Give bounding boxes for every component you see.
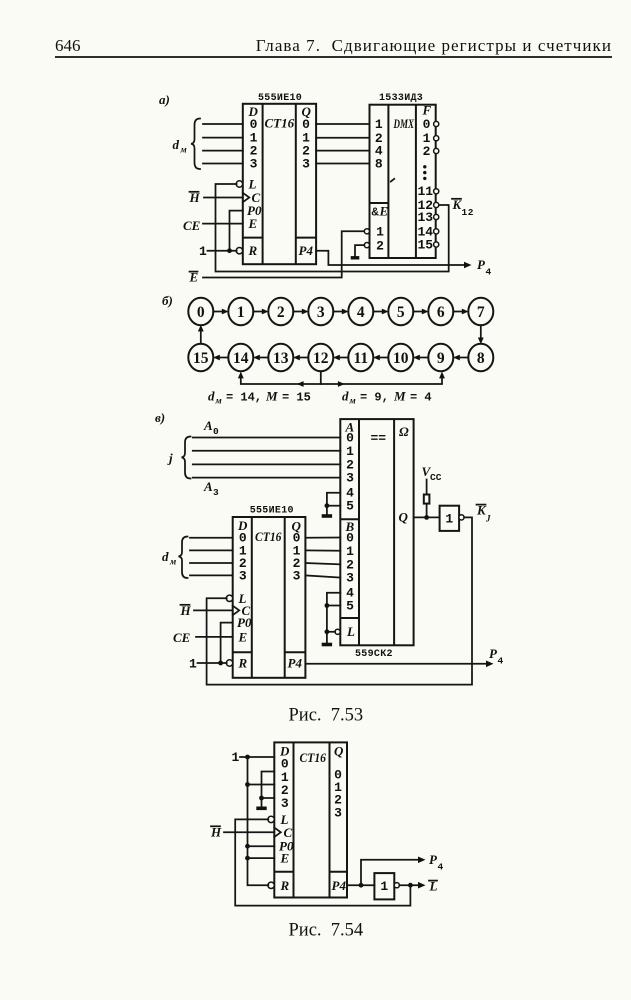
wire KJ feedback to L (207, 517, 472, 684)
svg-text:d: d (208, 389, 215, 404)
svg-text:L: L (346, 624, 355, 639)
counter U6 R bubble (268, 882, 274, 888)
svg-text:j: j (167, 451, 173, 466)
transition arrows bottom row (8 to 15) (213, 355, 468, 361)
brace for dm (179, 537, 188, 579)
transition arrows top row (213, 309, 468, 315)
svg-text:3: 3 (317, 304, 325, 321)
svg-text:5: 5 (397, 304, 405, 321)
svg-text:1: 1 (189, 657, 197, 672)
wire H to C (194, 609, 233, 611)
header rule (55, 56, 612, 58)
counter U1 body (243, 104, 316, 264)
junction P4 (359, 883, 364, 888)
wires Q0-Q3 to B0-B3 (305, 537, 340, 539)
svg-text:==: == (371, 431, 387, 446)
wire D1 to ground rail (262, 772, 275, 807)
counter U1 R inversion bubble (236, 248, 242, 254)
svg-text:3: 3 (281, 796, 289, 811)
state nodes 15-8 (188, 344, 493, 371)
inverter U7 body (374, 873, 394, 899)
junction A5 (325, 503, 330, 508)
svg-text:CE: CE (183, 218, 201, 233)
svg-text:d: d (173, 137, 180, 152)
counter U6 body (274, 742, 347, 897)
svg-text:0: 0 (213, 426, 219, 437)
svg-text:М: М (393, 389, 406, 404)
Vcc lead (426, 480, 428, 495)
svg-text:= 4: = 4 (410, 391, 432, 405)
svg-text:м: м (215, 396, 222, 406)
svg-text:d: d (342, 389, 349, 404)
svg-text:1: 1 (445, 511, 453, 526)
wire CE to E (203, 223, 243, 225)
svg-text:CT16: CT16 (300, 750, 327, 765)
comparator U3 L bubble (335, 629, 340, 634)
arrow 7 to 8 (480, 325, 482, 339)
svg-text:555ИЕ10: 555ИЕ10 (258, 93, 302, 104)
svg-text:3: 3 (346, 471, 354, 486)
junction D3 (259, 796, 264, 801)
svg-text:Глава 7. Сдвигающие регистры: Глава 7. Сдвигающие регистры и счетчики (256, 36, 612, 55)
svg-text:= 14,: = 14, (226, 391, 262, 405)
direction arrowhead on 12-9 line (338, 381, 345, 387)
svg-text:2: 2 (423, 144, 431, 159)
jump line 12 to 9 (321, 377, 442, 385)
svg-text:М: М (265, 389, 278, 404)
svg-text:5: 5 (346, 499, 354, 514)
wire H to C (204, 197, 243, 199)
wire 1 to R (208, 250, 237, 252)
wire P4 branch with arrow (361, 860, 418, 885)
svg-text:14: 14 (233, 350, 249, 367)
demux U2 output bubbles (434, 121, 439, 126)
svg-text:1: 1 (232, 750, 240, 765)
inverter U5 output bubble (459, 515, 464, 520)
counter U6 R-cell separator (274, 871, 293, 873)
svg-text:1: 1 (375, 117, 383, 132)
svg-text:CC: CC (430, 472, 442, 483)
svg-text:4: 4 (498, 656, 504, 667)
svg-text:CE: CE (173, 630, 191, 645)
svg-text:11: 11 (353, 350, 368, 367)
svg-text:2: 2 (376, 238, 384, 253)
svg-text:P4: P4 (288, 656, 303, 671)
wire 1 to R (198, 662, 227, 664)
svg-text:P4: P4 (299, 243, 314, 258)
wire CE to E (196, 636, 233, 638)
arrow 15 to 0 (200, 330, 202, 344)
svg-text:12: 12 (462, 207, 475, 218)
svg-text:R: R (238, 656, 248, 671)
svg-text:P4: P4 (332, 878, 347, 893)
ground bar (256, 806, 266, 810)
svg-text:d: d (162, 549, 169, 564)
B4 B5 stubs and L to ground (327, 593, 340, 643)
svg-text:Рис. 7.53: Рис. 7.53 (289, 706, 364, 726)
svg-text:м: м (349, 396, 356, 406)
vertical 1-rail (248, 757, 269, 885)
svg-text:б): б) (162, 293, 173, 308)
counter U1 R-cell separator (243, 237, 263, 239)
svg-text:&: & (372, 206, 380, 220)
svg-text:DMX: DMX (393, 116, 414, 131)
counter U1 P4-cell separator (296, 237, 316, 239)
A4 A5 stubs to ground (327, 493, 340, 515)
svg-text:E: E (248, 216, 258, 231)
state nodes 0-7 (188, 298, 493, 325)
wire to E (248, 857, 275, 859)
direction arrowhead on 12-14 line (297, 381, 304, 387)
junction B5 (325, 603, 330, 608)
wire to D3 (262, 797, 275, 799)
input lines A0-A3 (193, 437, 340, 439)
wires Q0-Q3 to DMX (316, 123, 369, 125)
counter U4 P4-cell separator (285, 651, 306, 653)
svg-text:1: 1 (376, 225, 384, 240)
counter U4 R-cell separator (233, 651, 252, 653)
svg-text:E: E (379, 204, 389, 219)
stray tick mark (391, 179, 394, 182)
svg-text:10: 10 (393, 350, 409, 367)
svg-text:E: E (280, 851, 290, 866)
junction L (325, 629, 330, 634)
wire P4 output with arrow (305, 663, 486, 665)
svg-text:4: 4 (357, 304, 365, 321)
svg-text:4: 4 (486, 267, 492, 278)
jump line 12 to 14 (241, 371, 321, 384)
svg-text:J: J (485, 514, 491, 524)
ellipsis dots (423, 165, 426, 168)
svg-text:3: 3 (239, 568, 247, 583)
svg-text:13: 13 (273, 350, 289, 367)
svg-text:1: 1 (380, 879, 388, 894)
wire P0 (230, 211, 243, 251)
counter U6 L bubble (268, 816, 274, 822)
wire H to C (224, 831, 274, 833)
junction P0/R (218, 661, 223, 666)
counter U1 L inversion bubble (236, 181, 242, 187)
wire L bubble to ground rail (327, 631, 335, 633)
counter U4 body (233, 517, 306, 678)
svg-text:1533ИД3: 1533ИД3 (379, 93, 423, 104)
svg-text:= 15: = 15 (282, 391, 311, 405)
svg-text:3: 3 (213, 487, 219, 498)
inverter U7 output bubble (394, 883, 399, 888)
junction L feedback (408, 883, 413, 888)
demux U2 enable pin2 wire to ground (355, 245, 364, 256)
svg-text:2: 2 (277, 304, 285, 321)
resistor lead to Q net (426, 504, 428, 518)
wire to D2 (248, 784, 275, 786)
brace for A inputs (182, 437, 191, 479)
svg-text:F: F (422, 103, 432, 118)
svg-text:1: 1 (199, 244, 207, 259)
wire P4 output with arrow (316, 251, 464, 265)
counter U6 C wedge (274, 828, 281, 837)
svg-text:0: 0 (423, 117, 431, 132)
svg-text:646: 646 (55, 36, 81, 55)
svg-text:а): а) (159, 92, 170, 107)
inverter U5 body (440, 506, 460, 531)
junction at 1 line (245, 755, 250, 760)
svg-text:555ИЕ10: 555ИЕ10 (250, 506, 294, 517)
junction to P0 (245, 844, 250, 849)
svg-text:C: C (284, 825, 293, 840)
wire Q to inverter (414, 516, 440, 518)
wire 1 to D0 (240, 756, 274, 758)
junction to D2 (245, 782, 250, 787)
ground bar for pin2 (351, 256, 360, 259)
svg-text:3: 3 (250, 156, 258, 171)
svg-text:Ω: Ω (399, 424, 409, 439)
svg-text:CT16: CT16 (255, 529, 282, 544)
junction P0/R (227, 248, 232, 253)
wire L feedback from K12 (216, 184, 449, 272)
svg-text:4: 4 (438, 862, 444, 873)
svg-text:13: 13 (417, 210, 433, 225)
svg-text:R: R (248, 243, 258, 258)
counter U4 R bubble (226, 660, 232, 666)
svg-text:15: 15 (417, 237, 433, 252)
wire inverter output with arrow (399, 884, 418, 886)
counter U6 P4-cell separator (330, 871, 348, 873)
svg-text:Q: Q (334, 744, 344, 759)
svg-text:E: E (238, 629, 248, 644)
svg-text:6: 6 (437, 304, 445, 321)
svg-text:3: 3 (346, 571, 354, 586)
wire P0 (221, 623, 233, 663)
svg-text:0: 0 (197, 304, 205, 321)
svg-text:8: 8 (477, 350, 485, 367)
wire P4 to inverter (347, 884, 374, 886)
counter U4 C wedge (233, 606, 240, 615)
wire to P0 (248, 845, 275, 847)
svg-text:= 9,: = 9, (360, 391, 389, 405)
input lines dm (190, 537, 233, 539)
svg-text:5: 5 (346, 599, 354, 614)
svg-text:9: 9 (437, 350, 445, 367)
svg-text:A: A (203, 418, 213, 433)
svg-text:CT16: CT16 (265, 116, 295, 131)
comparator U3 B separator (340, 518, 359, 520)
svg-text:Q: Q (399, 510, 409, 525)
ground bar B (322, 643, 332, 647)
svg-text:Рис. 7.54: Рис. 7.54 (289, 921, 364, 941)
svg-text:12: 12 (313, 350, 329, 367)
svg-text:8: 8 (375, 157, 383, 172)
junction Q/pullup (424, 515, 429, 520)
comparator U3 L separator (340, 617, 359, 619)
junction to E (245, 856, 250, 861)
svg-text:1: 1 (237, 304, 245, 321)
demux U2 &amp;E separator (370, 202, 389, 204)
svg-text:м: м (169, 557, 176, 567)
comparator U3 body (340, 419, 413, 645)
svg-text:3: 3 (293, 568, 301, 583)
svg-text:3: 3 (302, 156, 310, 171)
input lines dm group (203, 123, 243, 125)
resistor R1 (424, 495, 430, 504)
counter U4 L bubble (226, 595, 232, 601)
svg-text:м: м (180, 145, 187, 155)
svg-text:A: A (203, 479, 213, 494)
ground bar A (322, 514, 332, 518)
svg-text:7: 7 (477, 304, 485, 321)
counter U1 C dynamic-input wedge (243, 193, 250, 202)
svg-text:в): в) (155, 410, 165, 425)
svg-text:3: 3 (334, 806, 342, 821)
demux U2 body (370, 105, 436, 258)
svg-text:P0: P0 (237, 615, 252, 630)
brace for dm inputs (191, 119, 200, 170)
wire L feedback (235, 819, 410, 905)
svg-text:559СК2: 559СК2 (355, 649, 393, 660)
svg-text:R: R (280, 878, 290, 893)
svg-text:15: 15 (193, 350, 209, 367)
